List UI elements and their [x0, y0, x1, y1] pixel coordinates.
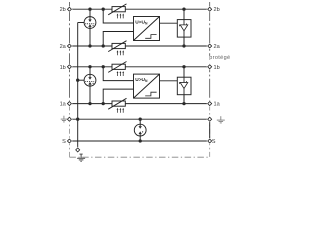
junction dot S rail — [139, 139, 142, 142]
ground symbol right (grey) — [217, 116, 225, 123]
svg-text:2a: 2a — [214, 44, 221, 50]
wire D1 lead (2b to 2a through box) — [183, 9, 185, 46]
disconnect arrows of R1 — [117, 14, 125, 19]
junction dots 1b rail — [88, 65, 185, 68]
disconnect arrows of R2 — [117, 50, 125, 55]
wire 2b rail — [71, 8, 208, 10]
wire U2 upper input L (from 1b) — [103, 67, 133, 81]
terminal S right — [207, 138, 213, 144]
varistor R2 (series element in 2a line) — [108, 41, 126, 52]
wire GDT middle-electrode vertical to ground bus — [77, 23, 79, 149]
svg-text:2b: 2b — [60, 7, 66, 13]
terminal 1b right — [207, 64, 213, 70]
suppressor diode D1 — [177, 20, 191, 46]
junction dot electrode vertical at F2 — [76, 79, 79, 82]
junction dots ground bus — [76, 118, 142, 121]
svg-text:2a: 2a — [60, 44, 67, 50]
wire U1 lower input L (to 2a) — [103, 32, 133, 47]
svg-text:S: S — [212, 139, 216, 145]
svg-text:1b: 1b — [214, 65, 220, 71]
terminal 2a right — [207, 43, 213, 49]
gas discharge tube F3 (shield to ground) — [134, 124, 146, 136]
ground symbol left (grey) — [61, 116, 67, 122]
wire gas tube F1 bottom lead — [89, 28, 91, 46]
terminal 1a left — [66, 100, 72, 106]
gas discharge tube F1 (3-electrode) — [84, 17, 96, 29]
wire 2a rail — [71, 45, 208, 47]
varistor R1 (series element in 2b line) — [108, 4, 126, 15]
border right lower (dash-dot) — [209, 106, 211, 158]
wire D2 lead (1b to 1a through box) — [183, 67, 185, 104]
gas discharge tube F2 (3-electrode) — [84, 74, 96, 86]
svg-text:2b: 2b — [214, 7, 220, 13]
terminal 1b left — [66, 64, 72, 70]
wire bottom GDT bottom lead — [139, 136, 141, 141]
junction dots 2b rail — [88, 8, 185, 11]
wire 1a rail — [71, 103, 208, 105]
wire U2 output to D2 — [160, 80, 178, 82]
svg-text:1a: 1a — [214, 102, 221, 108]
wire right link ground bus to S terminal — [209, 119, 211, 141]
wire gas tube F1 top lead — [89, 9, 91, 17]
wire gas tube F1 left stub — [78, 22, 85, 24]
electronic switch U2 (U>UN trigger circuit) — [134, 74, 160, 98]
border left upper (dash-dot) — [68, 2, 70, 104]
wire gas tube F2 bottom lead — [89, 86, 91, 104]
svg-text:S: S — [62, 139, 66, 145]
wire 1b rail — [71, 66, 208, 68]
junction dots 2a rail — [88, 44, 185, 47]
wire ground bus — [71, 118, 208, 120]
wire U2 lower input L (to 1a) — [103, 89, 133, 104]
junction dots 1a rail — [88, 102, 185, 105]
terminal earth bottom — [75, 147, 81, 153]
varistor R3 (series element in 1b line) — [108, 62, 126, 73]
suppressor diode D2 — [177, 77, 191, 103]
border right upper (dash-dot) — [209, 2, 211, 104]
svg-text:protégé: protégé — [209, 55, 230, 61]
wire U1 output to D1 — [160, 22, 178, 24]
terminal 1a right — [207, 100, 213, 106]
wire shield S rail — [71, 140, 208, 142]
electronic switch U1 (U>UN trigger circuit) — [134, 17, 160, 41]
border gap behind protégé — [209, 56, 212, 64]
svg-text:1b: 1b — [60, 65, 66, 71]
terminal ground right — [207, 116, 213, 122]
disconnect arrows of R4 — [117, 108, 125, 113]
wire gas tube F2 left stub — [78, 79, 85, 81]
terminal 2b right — [207, 6, 213, 12]
svg-text:1a: 1a — [60, 102, 67, 108]
wire gas tube F2 top lead — [89, 67, 91, 75]
wire bottom GDT top lead — [139, 119, 141, 124]
terminal ground left — [66, 116, 72, 122]
terminal 2a left — [66, 43, 72, 49]
border bottom (dash-dot) — [69, 156, 209, 158]
varistor R4 (series element in 1a line) — [108, 98, 126, 109]
disconnect arrows of R3 — [117, 71, 125, 76]
wire U1 upper input L (from 2b) — [103, 9, 133, 23]
terminal S left — [66, 138, 72, 144]
ground symbol bottom (earth of enclosure) — [77, 154, 85, 161]
terminal 2b left — [66, 6, 72, 12]
border left lower (dash-dot) — [68, 106, 70, 158]
